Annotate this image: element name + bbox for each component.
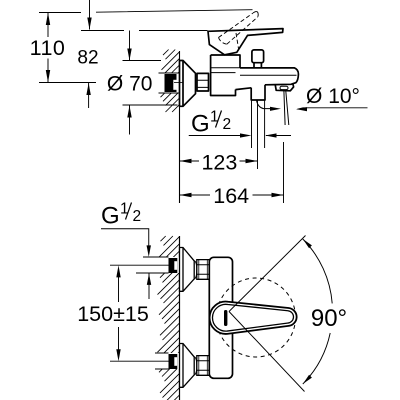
svg-text:82: 82 (77, 47, 98, 68)
svg-text:110: 110 (30, 36, 66, 60)
svg-text:G: G (101, 203, 120, 230)
svg-text:164: 164 (213, 184, 249, 208)
svg-text:Ø 70: Ø 70 (107, 73, 153, 96)
svg-text:G: G (191, 111, 210, 138)
svg-text:150±15: 150±15 (77, 302, 149, 326)
svg-text:123: 123 (201, 150, 237, 174)
svg-text:Ø 10°: Ø 10° (306, 85, 360, 108)
svg-text:2: 2 (223, 116, 232, 133)
svg-text:2: 2 (133, 208, 142, 225)
svg-text:90°: 90° (311, 305, 347, 332)
